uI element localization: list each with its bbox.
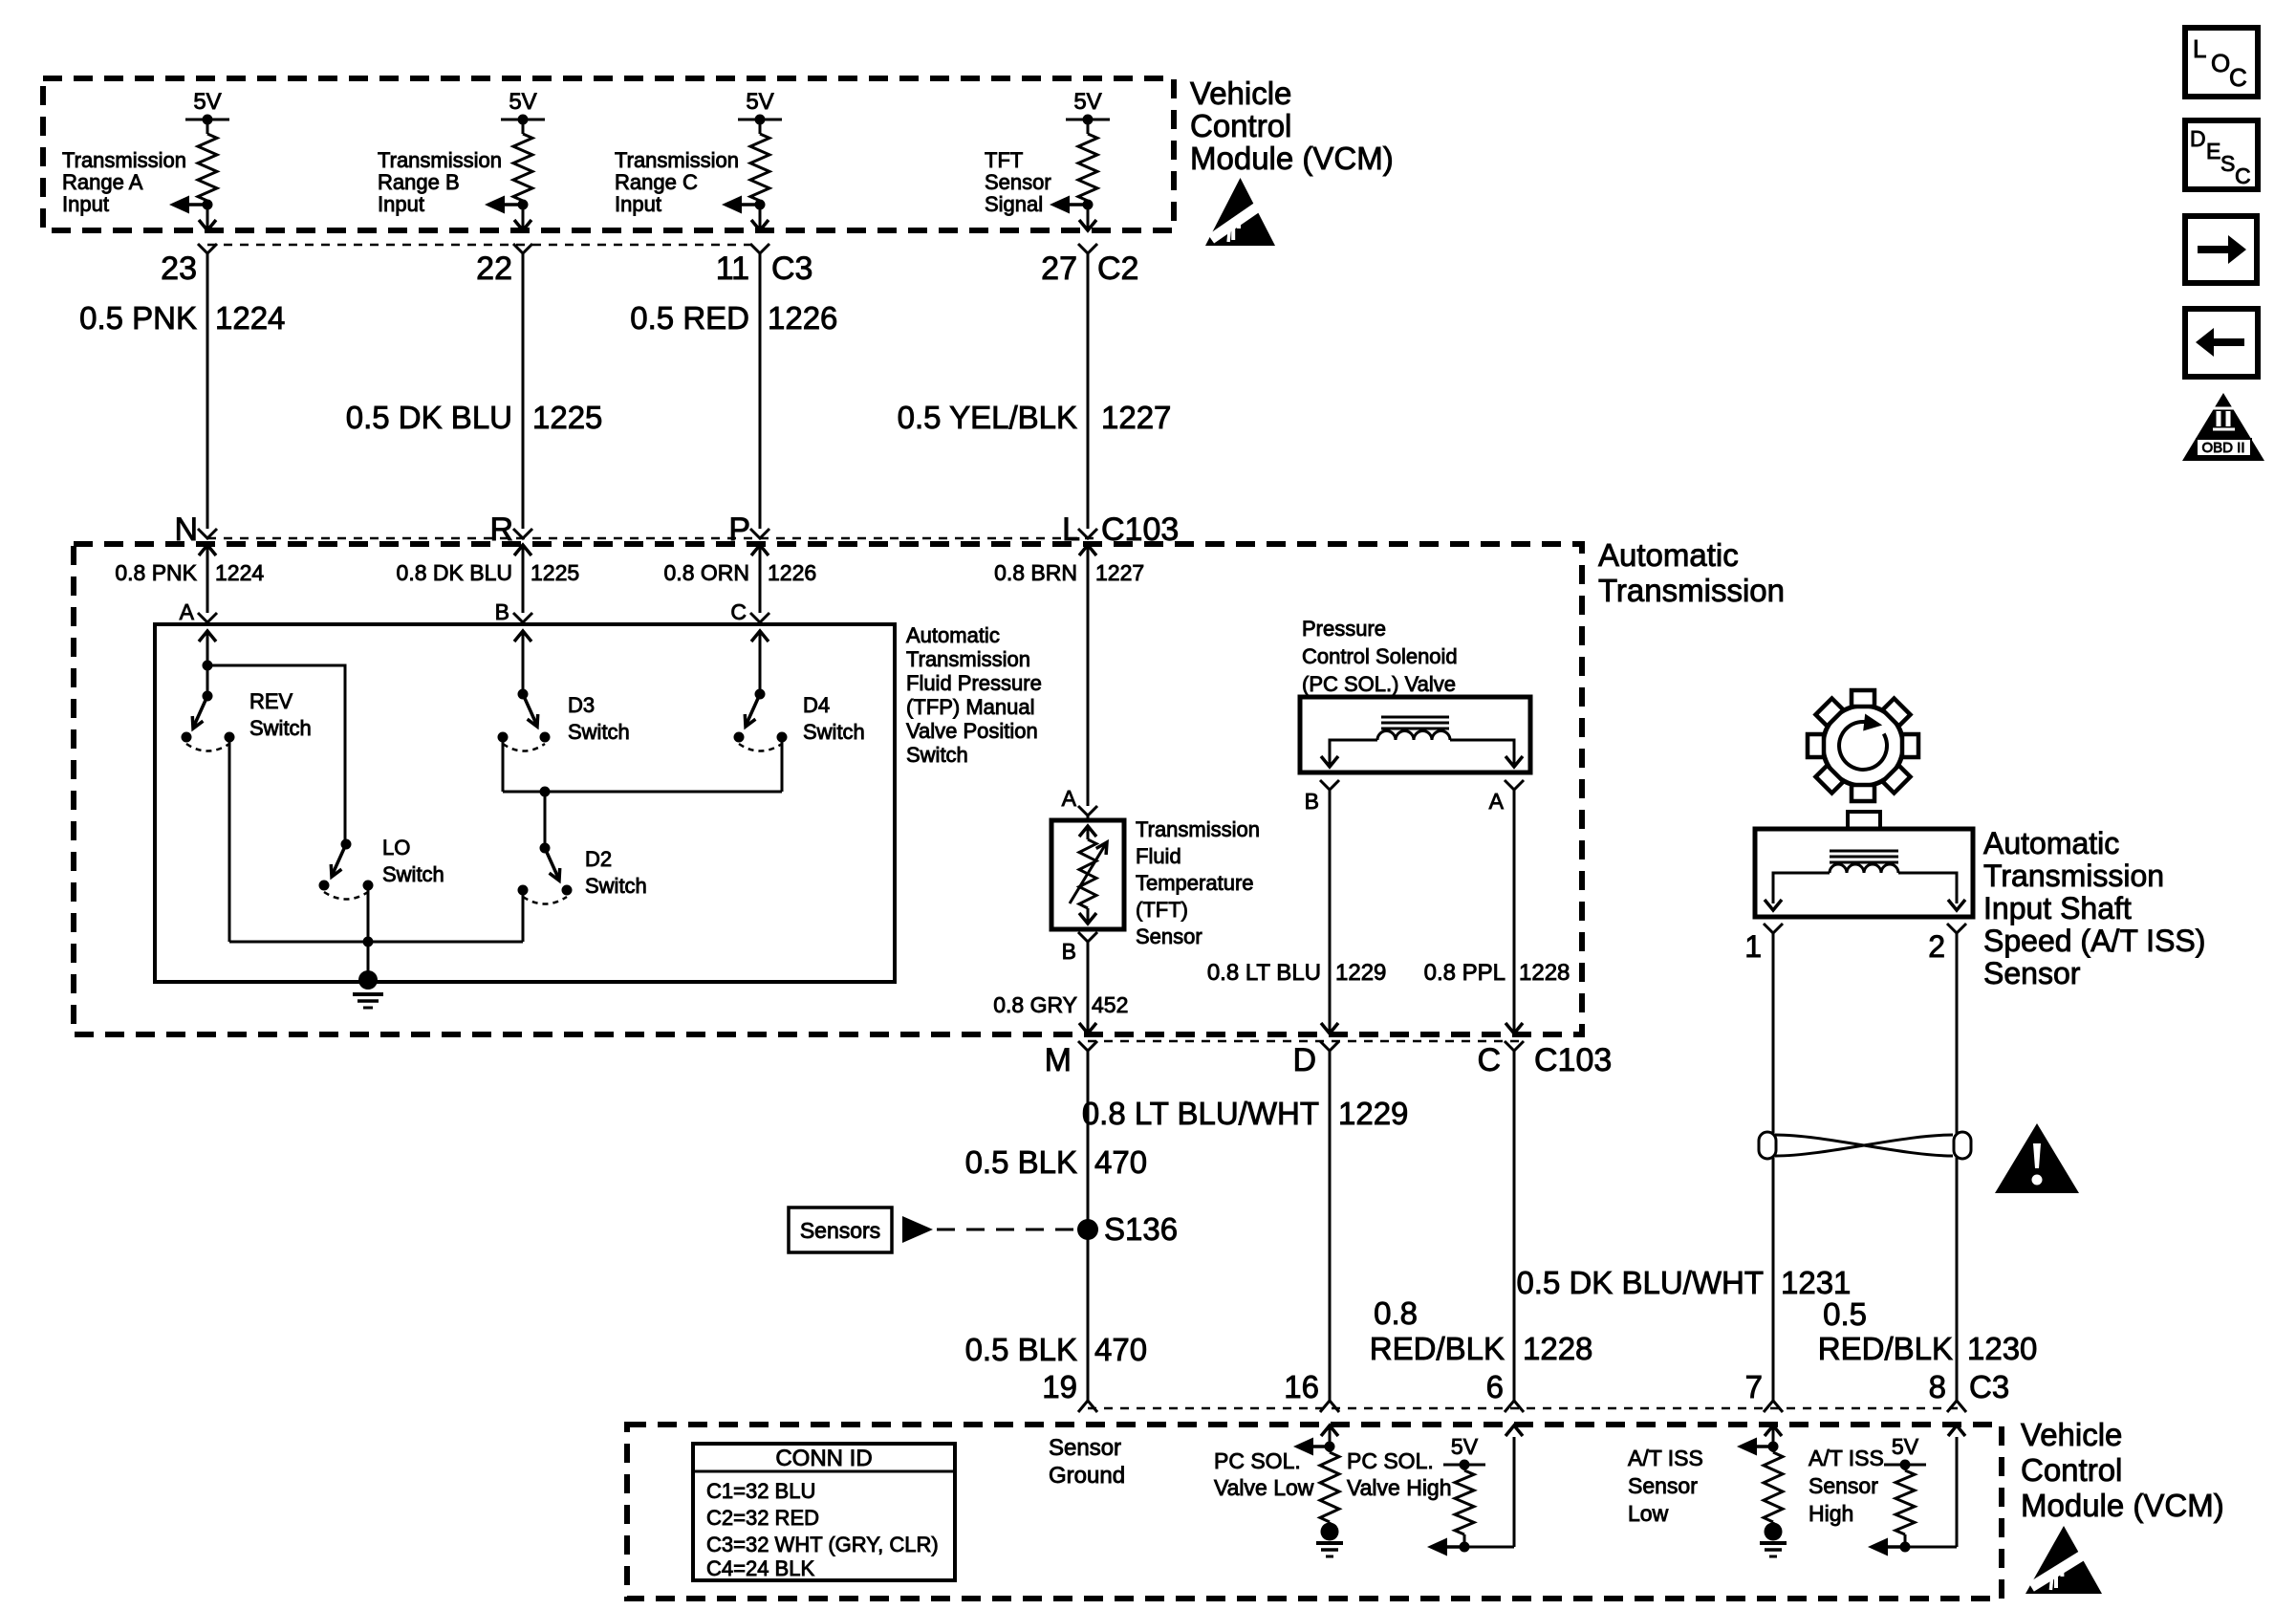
svg-text:Transmission: Transmission <box>615 148 739 172</box>
svg-text:0.5 YEL/BLK: 0.5 YEL/BLK <box>898 400 1077 435</box>
svg-text:470: 470 <box>1094 1332 1147 1367</box>
wire ISS 1 lower <box>1772 1157 1775 1401</box>
svg-text:Module (VCM): Module (VCM) <box>2021 1488 2224 1523</box>
svg-text:D2: D2 <box>585 847 612 871</box>
label D3 Switch <box>568 693 630 744</box>
svg-text:Sensor: Sensor <box>1809 1473 1878 1498</box>
connector C103 label (bottom) <box>1534 1042 1612 1078</box>
Sensors arrow and dashed link <box>902 1216 1076 1243</box>
svg-text:Switch: Switch <box>906 743 968 767</box>
svg-text:RED/BLK: RED/BLK <box>1818 1331 1953 1366</box>
connector terminal PC SOL B <box>1305 780 1339 814</box>
svg-text:D3: D3 <box>568 693 595 717</box>
svg-text:1227: 1227 <box>1101 400 1171 435</box>
svg-text:0.5 BLK: 0.5 BLK <box>965 1332 1077 1367</box>
svg-text:Range A: Range A <box>62 170 143 194</box>
svg-text:O: O <box>2211 49 2230 77</box>
wire PC SOL B down <box>1321 790 1338 1033</box>
arrow into transmission (0.8 DK BLU) <box>514 545 531 613</box>
pin D label <box>1292 1042 1316 1078</box>
svg-text:Sensor: Sensor <box>1983 956 2081 990</box>
svg-text:Valve Position: Valve Position <box>906 719 1038 743</box>
gear icon (input shaft) <box>1808 690 1918 801</box>
resistor (Range B pull-up) <box>513 120 532 230</box>
svg-text:1224: 1224 <box>215 560 264 585</box>
pin A label (TFP switch) <box>180 599 195 624</box>
pin L label <box>1062 511 1080 548</box>
svg-text:C2: C2 <box>1097 250 1138 287</box>
wire D3-D4 link <box>503 787 782 797</box>
connector line C103 (bottom) <box>1088 1040 1525 1043</box>
wire branch to LO switch <box>207 665 345 844</box>
switch D3 input wire <box>514 631 531 700</box>
connector terminal ISS 2 <box>1928 924 1966 964</box>
VCM module box (bottom) <box>627 1425 2002 1599</box>
label D2 Switch <box>585 847 647 898</box>
twisted pair symbol <box>1759 1132 1971 1159</box>
wire ISS 1 upper <box>1772 933 1775 1134</box>
svg-text:0.5 DK BLU/WHT: 0.5 DK BLU/WHT <box>1516 1265 1764 1300</box>
svg-text:5V: 5V <box>1073 89 1101 115</box>
connector terminal at x=1138 (top) <box>1078 244 1097 253</box>
svg-text:C103: C103 <box>1534 1042 1612 1078</box>
connector C103 label (top) <box>1101 511 1179 548</box>
label 0.8 ORN 1226 <box>664 560 817 585</box>
label Range B input <box>378 148 502 216</box>
arrow into connector (Range A) <box>199 220 216 230</box>
label 0.5 YEL/BLK 1227 <box>898 400 1172 435</box>
signal tap arrow (Range A) <box>169 196 213 214</box>
icon back arrow box <box>2185 309 2258 377</box>
connector terminal pin 16 <box>1284 1369 1339 1412</box>
svg-text:470: 470 <box>1094 1144 1147 1180</box>
label 0.5 DK BLU/WHT 1231 <box>1516 1265 1851 1300</box>
label 0.8 BRN 1227 <box>994 560 1144 585</box>
svg-text:Transmission: Transmission <box>1136 817 1260 841</box>
connector terminal at x=1391 (C103 bottom) <box>1320 1041 1339 1051</box>
solenoid PC SOL valve <box>1300 697 1530 772</box>
A/T ISS Sensor Low driver (pin 7) <box>1737 1425 1787 1556</box>
svg-text:Switch: Switch <box>803 720 865 744</box>
svg-text:11: 11 <box>716 250 749 287</box>
svg-text:Control Solenoid: Control Solenoid <box>1302 644 1458 668</box>
svg-text:Sensors: Sensors <box>800 1218 880 1243</box>
svg-text:Switch: Switch <box>382 862 444 886</box>
connector terminal pin 6 <box>1486 1369 1524 1412</box>
svg-text:0.8 PPL: 0.8 PPL <box>1424 960 1505 986</box>
svg-text:1226: 1226 <box>768 300 837 336</box>
svg-text:0.5 PNK: 0.5 PNK <box>79 300 197 336</box>
arrow into connector (Range C) <box>751 220 769 230</box>
svg-text:0.5: 0.5 <box>1823 1296 1867 1332</box>
node S136 <box>1077 1211 1178 1247</box>
connector terminal at x=547 (top) <box>513 244 532 253</box>
svg-text:22: 22 <box>476 250 512 287</box>
connector terminal at x=217 (C103 top) <box>198 529 217 538</box>
arrow into transmission (0.8 BRN) <box>1079 545 1096 806</box>
icon OBD II triangle <box>2182 393 2264 461</box>
svg-text:E: E <box>2206 139 2220 163</box>
icon LOC box <box>2185 28 2258 97</box>
icon forward arrow box <box>2185 216 2257 283</box>
svg-text:REV: REV <box>249 689 293 713</box>
pin C label <box>1477 1042 1501 1078</box>
label LO Switch <box>382 836 444 886</box>
wire TFT pin A <box>1062 786 1077 811</box>
svg-text:Automatic: Automatic <box>1598 537 1739 573</box>
PC SOL Valve Low driver (pin 16) <box>1293 1425 1343 1556</box>
svg-text:B: B <box>495 599 509 624</box>
svg-text:Switch: Switch <box>585 874 647 898</box>
resistor (TFT pull-up) <box>1078 120 1097 230</box>
svg-text:0.8 DK BLU: 0.8 DK BLU <box>397 560 512 585</box>
svg-text:1229: 1229 <box>1338 1096 1408 1131</box>
svg-text:(PC SOL.) Valve: (PC SOL.) Valve <box>1302 672 1456 696</box>
svg-text:0.8 PNK: 0.8 PNK <box>115 560 197 585</box>
CONN ID table <box>693 1444 955 1580</box>
wire 1224 (0.5 PNK) <box>206 252 209 529</box>
svg-text:0.5 DK BLU: 0.5 DK BLU <box>346 400 512 435</box>
5V supply (Range A) <box>185 89 229 125</box>
Automatic Transmission box <box>74 544 1582 1034</box>
svg-text:0.8 LT BLU/WHT: 0.8 LT BLU/WHT <box>1082 1096 1319 1131</box>
label 0.8 RED/BLK 1228 <box>1370 1295 1593 1366</box>
svg-text:8: 8 <box>1929 1369 1946 1404</box>
svg-text:Control: Control <box>2021 1452 2122 1488</box>
PC SOL Valve High source (pin 6) <box>1427 1425 1523 1556</box>
connector terminal pin 7 <box>1745 1369 1783 1412</box>
svg-text:Ground: Ground <box>1049 1463 1125 1489</box>
connector line C3 (top) <box>207 244 760 247</box>
svg-text:Automatic: Automatic <box>906 623 1000 647</box>
svg-text:1224: 1224 <box>215 300 285 336</box>
pin R label <box>489 511 513 548</box>
svg-text:7: 7 <box>1745 1369 1763 1404</box>
svg-text:High: High <box>1809 1501 1853 1526</box>
svg-text:Fluid Pressure: Fluid Pressure <box>906 671 1042 695</box>
pin N label <box>174 511 198 548</box>
svg-text:Temperature: Temperature <box>1136 871 1254 895</box>
connector line C103 (top) <box>207 537 1099 540</box>
ESD warning symbol (bottom) <box>2025 1526 2102 1594</box>
svg-text:C: C <box>2229 63 2247 92</box>
label TFT sensor <box>1136 817 1260 948</box>
arrow TFT B out of transmission <box>1079 1023 1096 1033</box>
svg-text:1229: 1229 <box>1335 960 1386 986</box>
svg-text:Sensor: Sensor <box>985 170 1051 194</box>
svg-text:C2=32 RED: C2=32 RED <box>706 1506 819 1530</box>
svg-text:C1=32 BLU: C1=32 BLU <box>706 1479 815 1503</box>
label TFP switch <box>906 623 1042 767</box>
svg-text:1231: 1231 <box>1781 1265 1851 1300</box>
pin 23 label <box>161 250 197 287</box>
label Range A input <box>62 148 186 216</box>
svg-text:Signal: Signal <box>985 192 1043 216</box>
svg-text:Valve Low: Valve Low <box>1214 1475 1314 1500</box>
svg-text:5V: 5V <box>509 89 536 115</box>
svg-text:Sensor: Sensor <box>1136 925 1202 948</box>
svg-text:PC SOL.: PC SOL. <box>1214 1448 1301 1473</box>
svg-text:C3: C3 <box>1969 1369 2009 1404</box>
svg-text:Fluid: Fluid <box>1136 844 1181 868</box>
connector terminal PC SOL A <box>1489 780 1524 814</box>
svg-text:19: 19 <box>1042 1369 1077 1404</box>
svg-text:Transmission: Transmission <box>378 148 502 172</box>
svg-text:A: A <box>1489 789 1505 814</box>
wire PC SOL A down <box>1505 790 1523 1033</box>
connector terminal pin 19 <box>1042 1369 1097 1412</box>
label 0.5 BLK 470 (upper) <box>965 1144 1147 1180</box>
svg-text:CONN ID: CONN ID <box>775 1446 872 1471</box>
wire D3 contact down <box>502 737 505 792</box>
signal tap arrow (TFT) <box>1050 196 1094 214</box>
A/T ISS Sensor High source (pin 8) <box>1868 1425 1965 1556</box>
pin 27 label <box>1041 250 1077 287</box>
svg-text:C: C <box>1477 1042 1501 1078</box>
label 0.5 BLK 470 (lower) <box>965 1332 1147 1367</box>
wire 1229 lower segment <box>1329 1051 1332 1401</box>
svg-text:Sensor: Sensor <box>1049 1435 1121 1461</box>
svg-text:D: D <box>1292 1042 1316 1078</box>
switch D2 <box>518 843 573 904</box>
connector terminal at x=1138 (C103 top) <box>1078 529 1097 538</box>
wire 1225 (0.5 DK BLU) <box>522 252 525 529</box>
resistor (Range C pull-up) <box>750 120 769 230</box>
svg-text:27: 27 <box>1041 250 1077 287</box>
svg-text:1228: 1228 <box>1519 960 1570 986</box>
label VCM (top right) <box>1190 76 1394 176</box>
connector terminal at x=1584 (C103 bottom) <box>1505 1041 1524 1051</box>
svg-text:A: A <box>180 599 195 624</box>
label Range C input <box>615 148 739 216</box>
VCM module box (top) <box>43 78 1174 230</box>
TFP manual valve position switch box <box>155 624 895 982</box>
svg-text:B: B <box>1305 789 1319 814</box>
svg-text:M: M <box>1045 1042 1072 1078</box>
svg-text:6: 6 <box>1486 1369 1504 1404</box>
wire 1227 (0.5 YEL/BLK) <box>1087 252 1090 529</box>
caution triangle <box>1995 1123 2079 1193</box>
svg-text:C: C <box>2235 163 2251 188</box>
connector terminal at x=547 (C103 top) <box>513 529 532 538</box>
svg-text:Input Shaft: Input Shaft <box>1983 891 2132 925</box>
svg-text:S: S <box>2220 151 2235 176</box>
label Sensor Ground <box>1049 1435 1125 1489</box>
label 0.5 PNK 1224 <box>79 300 285 336</box>
label PC SOL Valve Low <box>1214 1448 1314 1500</box>
wire REV to ground bus <box>228 737 231 942</box>
svg-text:B: B <box>1062 939 1076 964</box>
switch D4 <box>734 694 788 751</box>
svg-text:S136: S136 <box>1104 1211 1178 1247</box>
svg-text:Input: Input <box>62 192 109 216</box>
svg-text:C103: C103 <box>1101 511 1179 548</box>
label PC SOL Valve High <box>1347 1448 1452 1500</box>
svg-text:Sensor: Sensor <box>1628 1473 1698 1498</box>
svg-text:2: 2 <box>1928 929 1945 964</box>
connector terminal pin 8 <box>1929 1369 1966 1412</box>
ground bus wire <box>229 937 523 947</box>
pin M label <box>1045 1042 1072 1078</box>
svg-text:C: C <box>730 599 747 624</box>
svg-text:0.8 BRN: 0.8 BRN <box>994 560 1077 585</box>
svg-text:Transmission: Transmission <box>1983 859 2164 893</box>
svg-text:TFT: TFT <box>985 148 1023 172</box>
svg-text:D4: D4 <box>803 693 830 717</box>
connector C3 label (bottom) <box>1969 1369 2009 1404</box>
wire 1226 (0.5 RED) <box>759 252 762 529</box>
label A/T ISS sensor <box>1983 826 2205 990</box>
svg-text:0.8 LT BLU: 0.8 LT BLU <box>1207 960 1321 986</box>
wire D2 contact to bus <box>522 890 525 942</box>
svg-text:0.5 BLK: 0.5 BLK <box>965 1144 1077 1180</box>
connector C2 label <box>1097 250 1138 287</box>
wire LO contact to bus <box>367 885 370 942</box>
svg-text:16: 16 <box>1284 1369 1319 1404</box>
signal tap arrow (Range C) <box>722 196 766 214</box>
label Pressure Control Solenoid Valve <box>1302 617 1458 696</box>
label 0.8 LT BLU/WHT 1229 <box>1082 1096 1409 1131</box>
svg-text:Low: Low <box>1628 1501 1669 1526</box>
svg-text:1225: 1225 <box>531 560 579 585</box>
signal tap arrow (Range B) <box>485 196 529 214</box>
svg-text:0.8: 0.8 <box>1374 1295 1418 1331</box>
arrow into transmission (0.8 PNK) <box>199 545 216 613</box>
connector terminal TFT A <box>1078 806 1097 820</box>
label A/T ISS Sensor Low <box>1628 1446 1703 1526</box>
svg-text:1228: 1228 <box>1523 1331 1592 1366</box>
wire 470 (sensor ground) <box>1087 1051 1090 1401</box>
switch D4 input wire <box>751 631 769 700</box>
connector line C3 (bottom) <box>1088 1407 1964 1410</box>
svg-text:5V: 5V <box>746 89 773 115</box>
svg-text:RED/BLK: RED/BLK <box>1370 1331 1505 1366</box>
svg-text:Transmission: Transmission <box>62 148 186 172</box>
svg-text:Transmission: Transmission <box>906 647 1030 671</box>
svg-text:1230: 1230 <box>1967 1331 2037 1366</box>
svg-text:23: 23 <box>161 250 197 287</box>
connector terminal pin B <box>513 613 532 624</box>
connector terminal at x=217 (top) <box>198 244 217 253</box>
svg-text:Range C: Range C <box>615 170 698 194</box>
svg-text:Vehicle: Vehicle <box>2021 1417 2122 1452</box>
ESD warning symbol (top) <box>1205 178 1275 246</box>
icon DESC box <box>2185 120 2258 189</box>
svg-text:Switch: Switch <box>249 716 312 740</box>
svg-text:C3=32 WHT (GRY, CLR): C3=32 WHT (GRY, CLR) <box>706 1533 939 1556</box>
ground (TFP switch) <box>353 942 383 1008</box>
svg-text:(TFP) Manual: (TFP) Manual <box>906 695 1034 719</box>
switch REV <box>182 696 235 751</box>
label D4 Switch <box>803 693 865 744</box>
svg-text:Automatic: Automatic <box>1983 826 2119 860</box>
connector terminal at x=1138 (C103 bottom) <box>1078 1041 1097 1051</box>
connector terminal pin A <box>198 613 217 624</box>
svg-text:Control: Control <box>1190 108 1291 143</box>
svg-text:0.8 GRY: 0.8 GRY <box>993 992 1077 1017</box>
svg-text:1: 1 <box>1744 929 1762 964</box>
svg-text:Transmission: Transmission <box>1598 573 1785 608</box>
5V supply (Range B) <box>501 89 545 125</box>
pin 11 label <box>716 250 749 287</box>
svg-text:L: L <box>2193 34 2206 63</box>
wire link to D2 <box>544 792 547 848</box>
svg-text:Valve High: Valve High <box>1347 1475 1452 1500</box>
label 0.8 LT BLU 1229 <box>1207 960 1387 986</box>
svg-text:Switch: Switch <box>568 720 630 744</box>
A/T ISS sensor (inductive pickup) <box>1755 812 1973 917</box>
resistor (Range A pull-up) <box>198 120 217 230</box>
wire D4 contact down <box>781 737 784 792</box>
label 0.5 RED/BLK 1230 <box>1818 1296 2038 1366</box>
TFT sensor (thermistor) <box>1051 820 1124 929</box>
arrow into connector (Range B) <box>514 220 531 230</box>
connector terminal ISS 1 <box>1744 924 1783 964</box>
svg-text:1227: 1227 <box>1095 560 1144 585</box>
svg-text:A: A <box>1062 786 1077 811</box>
svg-text:C4=24 BLK: C4=24 BLK <box>706 1556 814 1580</box>
label TFT input <box>985 148 1051 216</box>
svg-text:LO: LO <box>382 836 410 859</box>
svg-text:D: D <box>2190 126 2206 151</box>
label 0.5 RED 1226 <box>630 300 837 336</box>
label 0.8 PPL 1228 <box>1424 960 1570 986</box>
arrow into connector (TFT) <box>1079 220 1096 230</box>
svg-text:5V: 5V <box>193 89 221 115</box>
svg-text:OBD II: OBD II <box>2201 440 2244 456</box>
connector terminal at x=795 (C103 top) <box>750 529 769 538</box>
arrow into transmission (0.8 ORN) <box>751 545 769 613</box>
svg-text:0.5 RED: 0.5 RED <box>630 300 749 336</box>
pin P label <box>728 511 750 548</box>
connector terminal at x=795 (top) <box>750 244 769 253</box>
svg-text:1225: 1225 <box>532 400 602 435</box>
label 0.8 PNK 1224 <box>115 560 264 585</box>
pin B label (TFP switch) <box>495 599 509 624</box>
svg-text:Speed (A/T ISS): Speed (A/T ISS) <box>1983 924 2205 958</box>
svg-text:C3: C3 <box>771 250 812 287</box>
svg-text:Vehicle: Vehicle <box>1190 76 1291 111</box>
svg-text:Input: Input <box>615 192 661 216</box>
wire ISS 2 lower <box>1956 1157 1959 1401</box>
svg-text:1226: 1226 <box>768 560 816 585</box>
wire 1228 lower segment <box>1513 1051 1516 1401</box>
svg-text:(TFT): (TFT) <box>1136 898 1188 922</box>
wire ISS 2 upper <box>1956 933 1959 1134</box>
svg-text:Range B: Range B <box>378 170 460 194</box>
pin C label (TFP switch) <box>730 599 747 624</box>
label VCM (bottom right) <box>2021 1417 2224 1523</box>
svg-text:Input: Input <box>378 192 424 216</box>
connector C3 label <box>771 250 812 287</box>
switch LO <box>319 839 374 900</box>
pin 22 label <box>476 250 512 287</box>
svg-text:PC SOL.: PC SOL. <box>1347 1448 1434 1473</box>
svg-text:0.8 ORN: 0.8 ORN <box>664 560 749 585</box>
svg-text:Module (VCM): Module (VCM) <box>1190 141 1394 176</box>
svg-text:A/T ISS: A/T ISS <box>1628 1446 1703 1470</box>
5V supply (Range C) <box>738 89 782 125</box>
svg-text:5V: 5V <box>1451 1434 1479 1459</box>
label 0.8 GRY 452 <box>993 992 1128 1017</box>
wire TFT pin B <box>1062 932 1097 1033</box>
label Automatic Transmission <box>1598 537 1785 608</box>
svg-text:5V: 5V <box>1892 1434 1919 1459</box>
label 0.8 DK BLU 1225 <box>397 560 580 585</box>
Sensors reference box <box>789 1207 892 1252</box>
label 0.5 DK BLU 1225 <box>346 400 603 435</box>
svg-text:A/T ISS: A/T ISS <box>1809 1446 1884 1470</box>
